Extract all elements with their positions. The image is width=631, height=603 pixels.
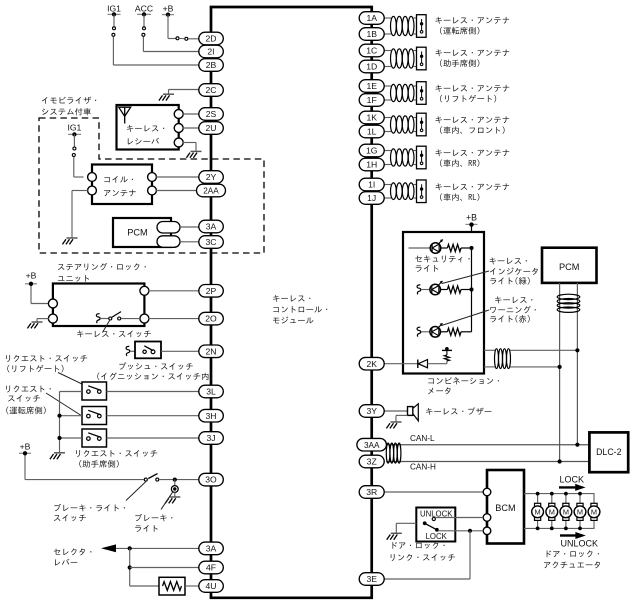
- IG1 supply: [107, 3, 121, 16]
- CAN-L wire 3AA to DLC-2: [386, 444, 589, 446]
- svg-text:M: M: [563, 508, 569, 517]
- svg-text:3Z: 3Z: [367, 457, 377, 467]
- svg-text:2U: 2U: [206, 123, 217, 133]
- warning resistor: [441, 328, 472, 335]
- PCM: [542, 248, 597, 283]
- module top wire: [210, 6, 373, 9]
- door lock actuator motor M1: [532, 492, 544, 531]
- junction (lower/CAN-H branch): [558, 365, 562, 369]
- keyless antenna (車内、RR) wires: [384, 151, 416, 165]
- wire junction down to 3E: [384, 531, 470, 579]
- pin 3E (module right): [359, 573, 384, 586]
- diode (meter): [418, 360, 428, 369]
- pin 1J (module right): [359, 192, 384, 205]
- wire liftgate switch to 3L: [107, 391, 199, 393]
- pin 1H (module right): [359, 158, 384, 171]
- label: keyless indicator light: [489, 257, 526, 264]
- +B supply (top): [162, 3, 174, 16]
- svg-text:3L: 3L: [206, 387, 216, 397]
- svg-text:1J: 1J: [367, 193, 376, 203]
- label: request switch passenger: [76, 450, 157, 457]
- net label LOCK with arrow: [559, 475, 586, 491]
- keyless antenna coil 1A/1B: [391, 16, 415, 35]
- wire bus to passenger switch: [60, 437, 83, 439]
- security light resistor: [441, 244, 472, 251]
- steering lock unit box: [53, 284, 144, 327]
- keyless antenna coil 1E/1F: [391, 84, 415, 101]
- BCM pin circles: [483, 488, 491, 534]
- pointer line to driver switch: [46, 393, 82, 416]
- pin 1A (module right): [359, 12, 384, 25]
- pin 3O (module left): [199, 473, 224, 486]
- meter element (thermistor): [442, 347, 452, 361]
- wire to resistor: [130, 585, 159, 587]
- pin 3A (module left): [199, 542, 224, 555]
- pin 3H (module left): [199, 409, 224, 422]
- label: request switch liftgate: [6, 355, 87, 362]
- antenna connector 1E/1F: [417, 82, 427, 105]
- svg-text:IG1: IG1: [107, 3, 121, 13]
- keyless antenna (車内、フロント) wires: [384, 118, 416, 132]
- keyless control module right bus wire: [370, 7, 373, 598]
- svg-text:DLC-2: DLC-2: [596, 447, 622, 457]
- pin 1K (module right): [359, 111, 384, 124]
- pin 2B (module left): [199, 59, 224, 72]
- pin 2D (module left): [199, 32, 224, 45]
- label: keyless antenna (車内、RL): [435, 183, 509, 190]
- wire bus to liftgate switch: [60, 391, 83, 393]
- CAN-H wire 3Z to DLC-2: [386, 461, 589, 463]
- actuator bottom bus wire: [524, 520, 594, 528]
- antenna connector 1I/1J: [417, 180, 427, 203]
- label: request switch driver side: [6, 385, 51, 392]
- wire receiver to ground: [183, 143, 196, 152]
- coil antenna: [92, 165, 152, 205]
- request switch (liftgate): [82, 382, 107, 400]
- junction (LOCK/3E): [468, 529, 472, 533]
- request switch (passenger side): [82, 429, 107, 447]
- wire selector branch down: [129, 548, 131, 586]
- wire link switch UNLOCK to BCM: [435, 517, 483, 519]
- svg-text:LOCK: LOCK: [426, 532, 448, 541]
- svg-text:ACC: ACC: [135, 3, 153, 13]
- svg-text:1D: 1D: [366, 62, 377, 72]
- svg-text:1G: 1G: [366, 146, 378, 156]
- door lock actuator motor M2: [546, 492, 558, 531]
- svg-text:LOCK: LOCK: [560, 475, 585, 485]
- pin 1I (module right): [359, 178, 384, 191]
- pin 4F (module left): [199, 561, 224, 574]
- pin 2C (module left): [199, 84, 224, 97]
- label: steering lock unit: [58, 263, 146, 270]
- svg-text:2S: 2S: [206, 109, 217, 119]
- ground (steering unit): [27, 322, 42, 328]
- svg-text:3C: 3C: [206, 237, 217, 247]
- junction (+B row2): [469, 287, 473, 291]
- pointer line to warning LED: [442, 310, 490, 326]
- svg-text:UNLOCK: UNLOCK: [561, 539, 599, 549]
- svg-text:BCM: BCM: [495, 503, 515, 513]
- ACC supply: [135, 3, 153, 16]
- label: keyless buzzer: [426, 407, 491, 415]
- pin 3Z (module right): [359, 455, 384, 468]
- inline connector (IG1): [113, 27, 116, 30]
- coil antenna pin circles: [88, 173, 157, 195]
- security light LED: [409, 239, 444, 253]
- combination meter box: [403, 232, 484, 374]
- pin 3L (module left): [199, 385, 224, 398]
- svg-text:3H: 3H: [206, 411, 217, 421]
- wire +B into meter: [471, 226, 473, 248]
- wire brake switch to 3O: [159, 479, 199, 481]
- svg-text:CAN-L: CAN-L: [410, 434, 435, 443]
- resistor (4U): [159, 577, 185, 595]
- ground (coil antenna): [62, 238, 77, 244]
- +B supply (meter): [466, 213, 478, 227]
- antenna connector 1K/1L: [417, 113, 427, 136]
- wire diode to element: [428, 360, 447, 363]
- svg-text:2I: 2I: [207, 47, 214, 57]
- svg-text:3Y: 3Y: [366, 406, 377, 416]
- ground (buzzer): [386, 422, 401, 428]
- ground (request switches): [50, 453, 65, 459]
- wire bus to driver switch: [60, 415, 83, 417]
- label: keyless control module: [273, 295, 310, 302]
- label: keyless warning light: [495, 296, 532, 303]
- wire ACC to pin 2I: [143, 14, 199, 51]
- svg-text:1I: 1I: [368, 180, 375, 190]
- pin 3J (module left): [199, 432, 224, 445]
- brake light lamp: [171, 480, 178, 497]
- svg-text:1H: 1H: [366, 160, 377, 170]
- +B supply (brake): [19, 442, 31, 456]
- request switch common wire to ground: [59, 392, 61, 453]
- label: keyless antenna (車内、RR): [435, 149, 509, 156]
- svg-text:3AA: 3AA: [364, 441, 380, 450]
- receiver pin circles: [174, 110, 183, 148]
- pin 2O (module left): [199, 312, 224, 325]
- svg-text:4F: 4F: [206, 563, 216, 573]
- label: keyless antenna (車内、フロント): [435, 116, 509, 123]
- svg-text:2N: 2N: [206, 346, 217, 356]
- meter internal +B wire: [471, 248, 473, 332]
- wire ground to pin 2C: [169, 90, 199, 94]
- wire selector to 3A: [116, 547, 199, 549]
- label: brake light: [135, 514, 172, 521]
- svg-text:1A: 1A: [366, 13, 377, 23]
- svg-text:3E: 3E: [366, 574, 377, 584]
- +B supply (steering): [25, 271, 37, 286]
- pin 4U (module left): [199, 580, 224, 593]
- meter twisted pair coil: [495, 349, 499, 369]
- wire meter upper to CAN junction: [484, 349, 577, 351]
- svg-text:2C: 2C: [206, 85, 217, 95]
- wire +B to connector to pin 2D: [168, 14, 199, 38]
- pin 3AA (module right): [357, 438, 387, 451]
- brake light switch: [144, 474, 159, 482]
- request switch (driver side): [82, 407, 107, 425]
- net label UNLOCK with arrow: [560, 532, 598, 549]
- push switch (in ignition switch): [126, 342, 161, 359]
- svg-text:2Y: 2Y: [206, 172, 217, 182]
- label: immobilizer: [42, 97, 96, 104]
- wire PCM to 3C: [180, 241, 199, 243]
- inline connector (IG1 immobilizer): [73, 147, 76, 150]
- keyless indicator LED: [417, 281, 443, 295]
- wire steering unit to 2P: [148, 290, 199, 292]
- keyless antenna (助手席側) wires: [384, 51, 416, 67]
- label: coil antenna: [104, 176, 133, 183]
- svg-text:M: M: [535, 508, 541, 517]
- inline connector (+B/2D): [176, 37, 188, 41]
- junction (brake light): [173, 478, 177, 482]
- svg-text:+B: +B: [466, 213, 477, 223]
- label: keyless antenna (リフトゲート): [435, 85, 509, 92]
- svg-text:3J: 3J: [206, 433, 215, 443]
- wire 2K into meter: [384, 363, 418, 365]
- ground (receiver): [186, 151, 201, 157]
- antenna connector 1C/1D: [417, 47, 427, 70]
- keyless warning LED: [417, 323, 443, 337]
- label: keyless receiver: [127, 125, 164, 132]
- DLC-2: [589, 432, 628, 472]
- inline connector (ACC): [143, 27, 146, 30]
- pointer line to brake switch: [126, 480, 148, 501]
- svg-text:3A: 3A: [206, 222, 217, 232]
- wire receiver to 2U: [183, 127, 199, 129]
- label: combination meter: [428, 377, 499, 384]
- pin 3Y (module right): [359, 405, 384, 418]
- pin 2AA (module left): [197, 184, 226, 197]
- wire steering unit to 2O pin: [148, 318, 199, 320]
- junction (+B row1): [469, 246, 473, 250]
- pin 3R (module right): [359, 486, 384, 499]
- pointer line to keyless switch: [103, 320, 110, 333]
- label: push switch: [119, 362, 192, 370]
- door lock actuator motor M3: [560, 492, 572, 531]
- svg-text:M: M: [577, 508, 583, 517]
- pin 2N (module left): [199, 345, 224, 358]
- PCM connector pills: [157, 222, 180, 248]
- svg-text:2P: 2P: [206, 286, 217, 296]
- door lock actuator motor M4: [574, 492, 586, 531]
- immobilizer system dashed boundary: [39, 118, 264, 253]
- svg-text:+B: +B: [20, 442, 31, 452]
- wire resistor to 4U: [185, 585, 199, 587]
- actuator top bus wire: [524, 494, 594, 504]
- ground (brake light): [165, 497, 180, 503]
- pin 1E (module right): [359, 80, 384, 93]
- svg-text:PCM: PCM: [127, 228, 147, 238]
- keyless antenna coil 1K/1L: [391, 116, 415, 133]
- junction (4F): [128, 565, 132, 569]
- keyless antenna (運転席側) wires: [384, 18, 416, 34]
- svg-text:1E: 1E: [366, 81, 377, 91]
- antenna connector 1G/1H: [417, 146, 427, 169]
- pin 2U (module left): [199, 122, 224, 135]
- wire coil antenna to 2Y: [156, 176, 199, 178]
- door lock actuator motor M5: [588, 503, 600, 520]
- PCM twisted pair coil: [557, 294, 580, 299]
- svg-text:3O: 3O: [205, 475, 217, 485]
- indicator resistor: [441, 286, 472, 293]
- wire 3R to BCM: [384, 491, 483, 493]
- wire link switch LOCK to BCM: [438, 530, 483, 532]
- junction (CAN-H): [558, 459, 562, 463]
- svg-text:3A: 3A: [206, 544, 217, 554]
- steering unit pin circles: [48, 286, 148, 323]
- keyless receiver U-RX: [117, 105, 179, 150]
- label: door lock actuator: [547, 550, 599, 557]
- wire PCM to 3A: [180, 226, 199, 228]
- svg-text:PCM: PCM: [559, 262, 579, 272]
- svg-text:CAN-H: CAN-H: [410, 463, 436, 472]
- wire 3Y to buzzer: [384, 410, 407, 412]
- pin 3C (module left): [199, 236, 224, 249]
- junction (CAN-L): [575, 443, 579, 447]
- keyless buzzer: [408, 404, 419, 421]
- module bottom wire: [210, 596, 373, 599]
- IG1 supply (immobilizer): [67, 123, 81, 137]
- svg-text:2O: 2O: [205, 314, 217, 324]
- pin 3A (module left): [199, 220, 224, 233]
- label: keyless switch: [77, 330, 151, 337]
- wire driver switch to 3H: [107, 415, 199, 417]
- wire IG1 to coil antenna: [74, 134, 84, 177]
- label: selector lever: [54, 548, 92, 555]
- keyless antenna coil 1I/1J: [391, 183, 415, 200]
- wire IG1 to pin 2B: [113, 14, 198, 65]
- selector lever arrow: [101, 544, 116, 552]
- wire +B to brake light switch: [25, 456, 144, 480]
- antenna connector 1A/1B: [417, 15, 427, 38]
- pin 2P (module left): [199, 285, 224, 298]
- svg-text:1B: 1B: [366, 29, 377, 39]
- keyless switch (in steering unit): [96, 312, 139, 324]
- wire push switch to 2N: [161, 350, 199, 352]
- wire buzzer to ground: [396, 415, 408, 421]
- wire meter lower to CAN junction: [484, 366, 560, 368]
- svg-text:4U: 4U: [206, 581, 217, 591]
- svg-text:M: M: [549, 508, 555, 517]
- keyless antenna coil 1C/1D: [391, 49, 415, 68]
- BCM: [487, 470, 524, 544]
- svg-text:2B: 2B: [206, 60, 217, 70]
- label: brake light switch: [54, 504, 125, 512]
- wire +B to steering lock unit: [31, 286, 49, 304]
- pin 2I (module left): [199, 45, 224, 58]
- junction (passenger switch): [57, 436, 61, 440]
- wire to 4F: [130, 567, 199, 569]
- keyless antenna coil 1G/1H: [391, 149, 415, 166]
- label: door lock link switch: [392, 542, 444, 549]
- wire coil antenna to 2AA: [156, 190, 196, 192]
- CAN twisted pair coil: [386, 443, 390, 463]
- PCM twisted pair wires: [560, 283, 578, 462]
- svg-text:M: M: [591, 508, 597, 517]
- PCM (immobilizer): [113, 218, 171, 247]
- pointer line to liftgate switch: [58, 373, 82, 385]
- wire ground to link switch pole: [396, 523, 416, 533]
- junction (upper/CAN-L branch): [575, 348, 579, 352]
- svg-text:+B: +B: [26, 271, 37, 281]
- keyless antenna (リフトゲート) wires: [384, 86, 416, 100]
- pointer line to brake light: [161, 492, 173, 510]
- svg-text:1L: 1L: [367, 127, 377, 137]
- pin 1F (module right): [359, 94, 384, 107]
- svg-text:IG1: IG1: [67, 123, 81, 133]
- pin 2Y (module left): [199, 171, 224, 184]
- junction (selector/3A): [128, 546, 132, 550]
- wire coil antenna to ground: [72, 191, 88, 238]
- svg-text:1C: 1C: [366, 46, 377, 56]
- pin 2S (module left): [199, 108, 224, 121]
- ground (link switch): [387, 533, 402, 539]
- door lock link switch: [416, 508, 455, 542]
- pointer line to indicator LED: [442, 271, 489, 284]
- ground (2C): [159, 94, 174, 100]
- label: security light: [415, 255, 469, 262]
- pin 1D (module right): [359, 60, 384, 73]
- svg-text:3R: 3R: [366, 487, 377, 497]
- svg-text:1F: 1F: [367, 95, 377, 105]
- label: keyless antenna (運転席側): [435, 17, 509, 24]
- wire receiver to 2S: [183, 113, 199, 115]
- keyless antenna (車内、RL) wires: [384, 185, 416, 199]
- wire passenger switch to 3J: [107, 437, 199, 439]
- svg-text:2K: 2K: [366, 359, 377, 369]
- svg-text:2AA: 2AA: [203, 187, 219, 196]
- label: keyless antenna (助手席側): [435, 49, 509, 56]
- pin 1B (module right): [359, 28, 384, 41]
- wire steering unit to ground: [37, 319, 49, 322]
- svg-text:2D: 2D: [206, 34, 217, 44]
- svg-text:1K: 1K: [366, 113, 377, 123]
- pin 1G (module right): [359, 144, 384, 157]
- pin 2K (module right): [359, 357, 384, 370]
- junction (driver switch): [57, 414, 61, 418]
- pin 1C (module right): [359, 44, 384, 57]
- pin 1L (module right): [359, 125, 384, 138]
- svg-text:+B: +B: [163, 3, 174, 13]
- keyless control module left bus wire: [210, 7, 213, 598]
